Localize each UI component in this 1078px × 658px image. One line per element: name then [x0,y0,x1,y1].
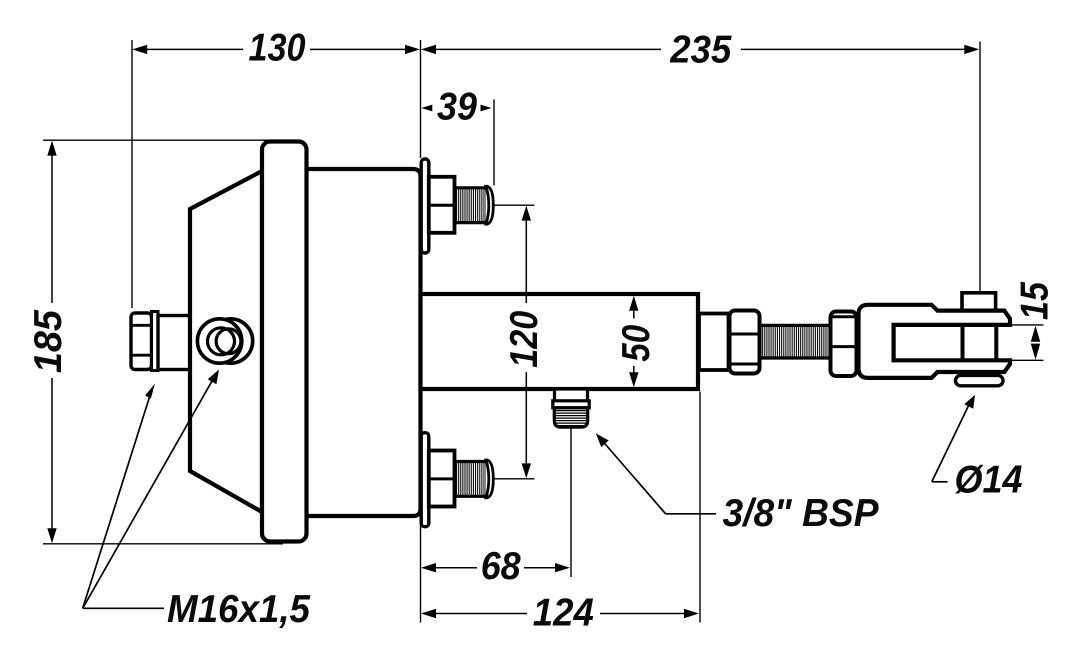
extension line left of 130 dim [131,40,133,308]
stud nut mid line [429,204,455,207]
extension line below tube right edge [699,392,701,623]
extension line below BSP port [570,428,572,577]
svg-text:39: 39 [437,86,477,129]
clevis fork [859,305,1011,378]
BSP port neck [555,389,588,402]
svg-text:235: 235 [669,29,732,72]
boss ring inner back rim [216,329,241,354]
stud threads [455,188,487,223]
boss ring outer circle [197,319,241,363]
extension line bottom stud centerline [491,478,535,480]
leader line dia14 [932,481,948,483]
boss ring outer crescent [208,319,252,363]
svg-text:M16x1,5: M16x1,5 [167,588,311,631]
BSP port ring [553,401,589,408]
top port stud group [421,159,493,253]
leader lines M16x1,5 [83,388,153,609]
threaded rod [760,326,831,357]
svg-text:68: 68 [481,545,521,588]
clevis pin shank right edge [994,325,998,360]
svg-text:50: 50 [615,324,658,361]
extension line clevis slot top [1011,324,1044,326]
clevis pin retainer tab [956,375,1004,385]
svg-text:124: 124 [533,592,594,635]
dimension line 50 [633,311,635,319]
end cap [262,142,307,542]
bleed screw washer [152,312,159,371]
dimension line 68 [428,567,477,569]
bleed screw hex head [131,313,152,370]
cylinder barrel [284,169,421,516]
dimension line 185 [51,148,53,303]
svg-text:120: 120 [503,311,546,368]
svg-text:185: 185 [27,309,70,373]
extension line right of 235 dim [979,42,981,293]
svg-text:15: 15 [1013,281,1056,320]
bottom port stud [421,433,493,527]
dimension line 124 [428,613,527,615]
leader line 3/8 BSP [666,513,716,515]
clevis pin shank left edge [961,325,965,360]
extension line top stud centerline [491,204,535,206]
extension line right of 39 dim [493,100,495,186]
lock nut 1 [730,311,760,374]
dimension 39 arrows [421,105,432,112]
svg-text:Ø14: Ø14 [955,459,1023,502]
dimension line 235 [428,48,661,50]
svg-text:130: 130 [249,26,306,69]
extension line at body right edge top [420,40,422,158]
extension line bottom of 185 dim [43,543,283,545]
boss ring inner circle [208,328,235,355]
stud tip [486,186,493,224]
cylinder tube block [421,294,699,389]
extension line at body right edge bottom [420,521,422,623]
clevis pin head [962,293,996,312]
extension line clevis slot bottom [1011,359,1044,361]
stud nut [429,177,455,233]
dimension line 120 [525,220,527,303]
dimension 15 double arrow [1031,326,1040,342]
stud flange [421,159,429,253]
svg-text:3/8" BSP: 3/8" BSP [723,492,880,535]
dimension line 130 [138,48,243,50]
bleed screw body [158,316,190,370]
rod collar [699,314,729,371]
BSP port thread barrel [554,408,587,427]
extension line top of 185 dim [43,139,290,141]
cone housing [190,171,262,512]
lock nut 2 [831,312,857,377]
